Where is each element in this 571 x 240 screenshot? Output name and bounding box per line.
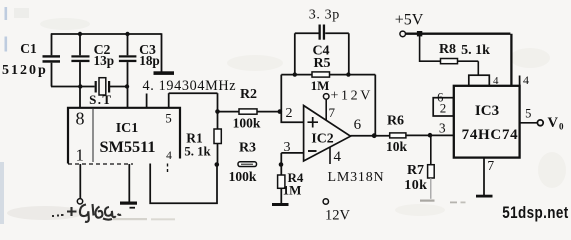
svg-text:IC2: IC2 bbox=[311, 131, 333, 146]
value 1M bbox=[283, 183, 302, 198]
+5V terminal circle bbox=[400, 31, 406, 37]
C4 right leg bbox=[348, 33, 350, 74]
wire op-amp output bbox=[351, 135, 390, 137]
pin 14 label bbox=[520, 73, 529, 87]
pin 5 output wire bbox=[520, 122, 538, 124]
svg-text:5. 1k: 5. 1k bbox=[461, 43, 490, 58]
resistor R2 bbox=[218, 109, 281, 114]
svg-text:3: 3 bbox=[439, 120, 446, 135]
pin 7 wire bbox=[483, 158, 485, 195]
svg-text:100k: 100k bbox=[229, 169, 257, 184]
label C3 bbox=[139, 42, 156, 57]
svg-text:+5V: +5V bbox=[395, 11, 424, 28]
pin 6 label bbox=[437, 91, 443, 105]
svg-text:R2: R2 bbox=[240, 87, 257, 102]
resistor R1 bbox=[214, 112, 221, 165]
node dot crystal/C2 bbox=[78, 84, 82, 88]
wire down to R1 node bbox=[217, 93, 219, 111]
label R6 bbox=[387, 114, 404, 129]
ground bar (top right of C3) bbox=[154, 71, 175, 75]
svg-text:4: 4 bbox=[334, 149, 342, 165]
svg-text:4: 4 bbox=[166, 150, 172, 162]
watermark 51dsp.net bbox=[502, 204, 568, 223]
svg-text:S.T: S.T bbox=[89, 92, 112, 107]
resistor R4 bbox=[278, 165, 285, 204]
label +12V bbox=[331, 89, 373, 104]
svg-text:IC3: IC3 bbox=[475, 103, 499, 119]
value 100k bbox=[229, 169, 257, 184]
IC1 ground pin wire bbox=[128, 164, 130, 202]
svg-text:7: 7 bbox=[487, 158, 494, 173]
pin 4 label bbox=[334, 149, 342, 165]
label R7 bbox=[407, 163, 424, 178]
crystal S.T bbox=[95, 78, 111, 95]
resistor R6 bbox=[390, 133, 454, 138]
svg-text:5: 5 bbox=[525, 107, 531, 121]
+12V terminal bbox=[323, 94, 329, 121]
node dot R1 top bbox=[215, 109, 220, 114]
pin 4 stub bbox=[329, 147, 331, 164]
node dot R6/R7 bbox=[428, 133, 433, 138]
label R3 bbox=[239, 141, 256, 156]
resistor R5 bbox=[281, 72, 375, 77]
scan smudge bottom-left bbox=[7, 206, 175, 220]
svg-text:4: 4 bbox=[523, 73, 529, 87]
label C1 bbox=[20, 41, 37, 56]
label C2 bbox=[94, 42, 111, 57]
svg-text:IC1: IC1 bbox=[116, 121, 139, 136]
node dot output/feedback bbox=[372, 133, 377, 138]
wire pin5 drop into IC1 bbox=[168, 93, 170, 108]
value 5.1k bbox=[461, 43, 490, 58]
svg-text:5: 5 bbox=[165, 110, 172, 125]
wire crystal row bbox=[51, 86, 128, 88]
svg-text:SM5511: SM5511 bbox=[99, 137, 155, 156]
pin 4 label (bump) bbox=[493, 75, 499, 87]
label S.T bbox=[89, 92, 112, 107]
wire top-right drop bbox=[161, 33, 163, 72]
node dot rail/C2 bbox=[78, 32, 82, 36]
label 4.194304MHz bbox=[143, 78, 237, 94]
wire top rail bbox=[51, 33, 162, 35]
C4 left leg bbox=[294, 33, 296, 74]
svg-text:R6: R6 bbox=[387, 114, 404, 129]
pin 4 label bbox=[166, 150, 172, 162]
node dot R2/feedback bbox=[278, 109, 283, 114]
node dot crystal/C3 bbox=[125, 84, 129, 88]
capacitor C1 bbox=[43, 34, 61, 87]
pin 1 label bbox=[75, 146, 84, 165]
node dot R5/C4 right bbox=[346, 72, 350, 76]
wire R8 branch down bbox=[420, 34, 441, 62]
label IC3 bbox=[475, 103, 499, 119]
capacitor C4 bbox=[295, 25, 349, 40]
svg-text:6: 6 bbox=[354, 117, 362, 133]
svg-text:R1: R1 bbox=[186, 131, 203, 146]
resistor R7 bbox=[428, 135, 435, 199]
op-amp IC2 bbox=[304, 106, 351, 162]
svg-text:5. 1k: 5. 1k bbox=[184, 145, 211, 159]
label IC2 bbox=[311, 131, 333, 146]
svg-text:V: V bbox=[548, 115, 559, 131]
svg-text:+12V: +12V bbox=[331, 89, 373, 104]
svg-text:1M: 1M bbox=[283, 183, 302, 198]
wire feedback left rail bbox=[281, 75, 303, 123]
svg-text:R7: R7 bbox=[407, 163, 424, 178]
output terminal circle bbox=[537, 120, 543, 126]
svg-text:C1: C1 bbox=[20, 41, 37, 56]
wire feedback right rail bbox=[374, 75, 376, 136]
label R8 bbox=[439, 42, 456, 57]
label SM5511 bbox=[99, 137, 155, 156]
pin 2 label bbox=[286, 106, 293, 121]
label V0 bbox=[548, 115, 565, 131]
pin 7 label bbox=[329, 105, 336, 120]
pin 2 box bbox=[433, 98, 453, 116]
node dot R5/C4 left bbox=[293, 72, 297, 76]
wire IC1 bottom to R1 bottom bbox=[150, 164, 217, 204]
value 3.3p bbox=[309, 8, 340, 23]
value 100k bbox=[233, 115, 261, 130]
wire +5V rail bbox=[406, 34, 512, 86]
ground bar (IC3 pin7) bbox=[476, 195, 493, 198]
label 74HC74 bbox=[462, 127, 519, 143]
svg-text:5120p: 5120p bbox=[2, 63, 48, 78]
capacitor C2 bbox=[71, 34, 89, 109]
pin 3 label bbox=[439, 120, 446, 135]
label R4 bbox=[288, 170, 304, 185]
svg-text:R5: R5 bbox=[313, 56, 330, 71]
svg-text:4. 194304MHz: 4. 194304MHz bbox=[143, 78, 237, 94]
label 12V bbox=[325, 208, 351, 224]
label R2 bbox=[240, 87, 257, 102]
svg-text:8: 8 bbox=[76, 109, 85, 129]
label +5V bbox=[395, 11, 424, 28]
node dot rail/C3 bbox=[125, 32, 129, 36]
value 5.1k bbox=[184, 145, 211, 159]
value 5120p bbox=[2, 63, 48, 78]
capacitor C3 bbox=[119, 34, 136, 109]
svg-text:4: 4 bbox=[493, 75, 499, 87]
dashed pin4 stub bbox=[167, 164, 169, 173]
scan artifact blue streak top-left bbox=[5, 7, 30, 52]
scan noise patches bbox=[40, 18, 566, 216]
pin 3 label bbox=[284, 140, 291, 155]
svg-text:74HC74: 74HC74 bbox=[462, 127, 519, 143]
pin 1 wire bbox=[79, 164, 81, 198]
wire pin5 top run bbox=[169, 92, 218, 94]
svg-text:10k: 10k bbox=[386, 139, 408, 154]
resistor R8 bbox=[441, 59, 479, 76]
pin 6 label bbox=[354, 117, 362, 133]
label R1 bbox=[186, 131, 203, 146]
svg-text:0: 0 bbox=[559, 121, 564, 131]
svg-text:3. 3p: 3. 3p bbox=[309, 8, 340, 23]
svg-text:1: 1 bbox=[75, 146, 84, 165]
pin stub under 4.19 label bbox=[146, 94, 148, 109]
pin 5 label bbox=[165, 110, 172, 125]
svg-text:2: 2 bbox=[286, 106, 293, 121]
svg-text:1M: 1M bbox=[311, 78, 330, 93]
IC1 box bbox=[68, 108, 180, 164]
IC3 top bump (pin 4 preset) bbox=[469, 75, 490, 86]
wire pin3 input bbox=[281, 153, 303, 165]
pin 5 label bbox=[525, 107, 531, 121]
pin 7 label bbox=[487, 158, 494, 173]
ground bar (R7, faint) bbox=[420, 200, 466, 204]
svg-text:R3: R3 bbox=[239, 141, 256, 156]
ground (IC1) bbox=[120, 202, 137, 209]
value 10k bbox=[404, 178, 427, 193]
value 13p bbox=[94, 53, 115, 68]
node dot R1 bottom bbox=[215, 162, 220, 167]
svg-text:6: 6 bbox=[437, 91, 443, 105]
value 10k bbox=[386, 139, 408, 154]
svg-text:100k: 100k bbox=[233, 115, 261, 130]
12V negative supply terminal bbox=[323, 199, 328, 204]
svg-text:10k: 10k bbox=[404, 178, 427, 193]
pin 8 label bbox=[76, 109, 85, 129]
label IC1 bbox=[116, 121, 139, 136]
ground bar (R4) bbox=[272, 203, 289, 206]
IC3 box bbox=[454, 86, 520, 158]
svg-text:12V: 12V bbox=[325, 208, 351, 224]
IC1 inner crease line bbox=[92, 109, 94, 162]
node dot +5V/R8 bbox=[417, 31, 422, 36]
resistor R3 (floating body) bbox=[238, 162, 257, 167]
value 1M bbox=[311, 78, 330, 93]
label LM318N bbox=[328, 170, 385, 185]
svg-text:R8: R8 bbox=[439, 42, 456, 57]
label R5 bbox=[313, 56, 330, 71]
scan artifact blue streak bottom-left bbox=[0, 162, 4, 224]
svg-text:18p: 18p bbox=[139, 53, 160, 68]
svg-text:LM318N: LM318N bbox=[328, 170, 385, 185]
svg-text:13p: 13p bbox=[94, 53, 115, 68]
label C4 bbox=[312, 44, 329, 59]
svg-text:51dsp.net: 51dsp.net bbox=[502, 204, 568, 223]
svg-text:7: 7 bbox=[329, 105, 336, 120]
node dot R3/R4/pin3 bbox=[279, 162, 284, 167]
value 18p bbox=[139, 53, 160, 68]
terminal circle pin1 bbox=[77, 199, 82, 204]
handwriting smudge +0.62 bbox=[52, 204, 121, 222]
